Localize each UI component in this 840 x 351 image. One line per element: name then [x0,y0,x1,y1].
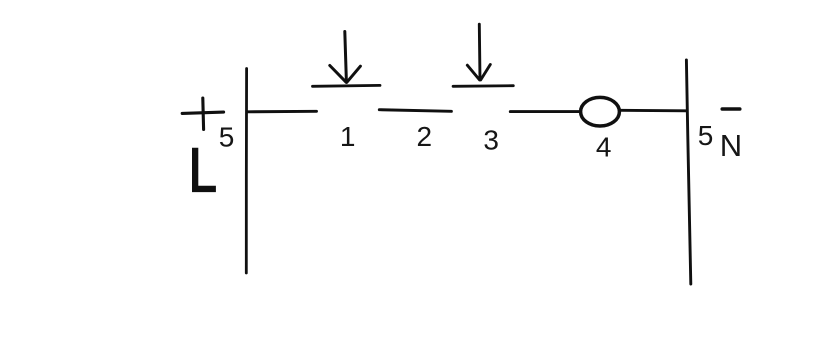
svg-text:4: 4 [596,131,612,162]
svg-text:5: 5 [219,121,235,152]
wire segment D (lamp 4 to N bus) [621,109,686,112]
pushbutton S2 actuator arrow shaft [478,24,482,79]
svg-text:1: 1 [340,121,356,152]
pushbutton S1 arrowhead right barb [347,66,361,82]
pushbutton S1 bridge bar [313,84,381,88]
+ polarity symbol vertical stroke [201,98,205,130]
svg-text:2: 2 [417,121,433,152]
label L (line conductor), drawn glyph [192,148,216,192]
wire segment C (switch 2 right contact to lamp 4) [510,110,579,113]
pushbutton S2 bridge bar [453,84,513,87]
lamp / load 4 (ellipse) [581,97,620,126]
line N bus (right vertical supply line) [686,60,690,284]
svg-text:5: 5 [698,120,714,151]
wire segment A (L bus to switch 1 left contact) [247,110,317,113]
line L bus (left vertical supply line) [245,69,248,274]
+ polarity symbol horizontal stroke [182,112,223,113]
svg-text:3: 3 [483,124,499,155]
wire segment B (switch 1 right contact to switch 2 left contact) [379,110,451,112]
pushbutton S1 actuator arrow shaft [345,32,347,82]
- polarity symbol [722,107,740,111]
pushbutton S2 arrowhead right barb [481,65,491,80]
pushbutton S2 arrowhead left barb [467,65,479,80]
svg-text:N: N [720,128,742,163]
pushbutton S1 arrowhead left barb [330,66,346,83]
